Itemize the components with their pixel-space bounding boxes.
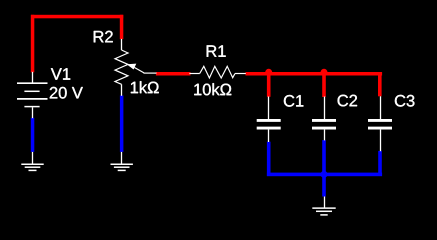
label 20 V: [50, 87, 83, 99]
junction dot at C2 bottom: [321, 171, 328, 178]
wire: blue from C2 bottom through bus: [322, 140, 326, 196]
label 1kOhm: [131, 81, 159, 93]
potentiometer R2: [115, 39, 157, 96]
wire: blue from R2 bottom to ground: [120, 96, 124, 152]
capacitor C2: [312, 97, 336, 141]
junction dot at C2 top: [321, 69, 328, 76]
resistor R1: [189, 66, 245, 78]
label C3: [395, 95, 415, 107]
wiper arm line: [135, 68, 145, 73]
wire: red corner down to C3: [378, 72, 382, 96]
battery V1: [17, 72, 48, 118]
wire: blue from V1 - to ground: [31, 118, 35, 152]
ground (battery): [21, 152, 43, 171]
wire: left vertical red down to V1 +: [31, 15, 35, 73]
wire: top horizontal red from V1 to R2: [31, 15, 123, 18]
label 10kOhm: [194, 83, 231, 95]
ground (R2): [111, 152, 133, 171]
capacitor C3: [368, 96, 392, 151]
wire: red stub down to C1: [267, 72, 271, 97]
junction dot at C1 top: [265, 69, 272, 76]
wire: vertical red down to R2 top: [120, 15, 124, 39]
wire: blue bottom bus: [267, 173, 382, 177]
label R1: [207, 45, 226, 56]
wiper arrowhead: [127, 64, 137, 70]
label C1: [284, 95, 303, 107]
wire: blue from C1 bottom to bus: [267, 142, 271, 176]
label V1: [51, 68, 70, 79]
wire: blue from C3 bottom to bus: [378, 151, 382, 176]
capacitor C1: [257, 97, 281, 143]
wire: red bus from R1 right to C3: [246, 72, 383, 76]
label C2: [338, 95, 357, 107]
wire: red from R2 wiper to R1 left: [156, 72, 191, 76]
ground (capacitor bus): [312, 197, 335, 215]
label R2: [94, 31, 113, 43]
wire: red stub down to C2: [322, 72, 326, 97]
